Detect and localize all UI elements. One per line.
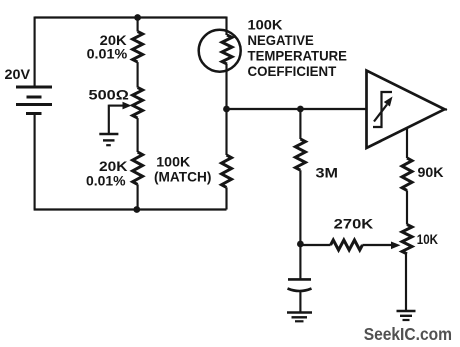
wire bottom rail xyxy=(34,208,227,210)
potentiometer P1 500 ohm xyxy=(133,88,143,119)
wire R3 to bottom rail xyxy=(225,187,227,209)
svg-text:90K: 90K xyxy=(418,164,444,180)
svg-text:COEFFICIENT: COEFFICIENT xyxy=(248,63,337,79)
wire node to R5 xyxy=(300,244,330,246)
wire R5 to arrow xyxy=(362,244,392,246)
svg-text:10K: 10K xyxy=(417,231,438,247)
node junction bottom xyxy=(133,206,140,213)
resistor R2 20K 0.01% xyxy=(133,152,143,184)
svg-text:0.01%: 0.01% xyxy=(87,46,128,62)
svg-text:100K: 100K xyxy=(156,154,190,170)
resistor R5 270K xyxy=(331,240,363,250)
svg-text:SeekIC.com: SeekIC.com xyxy=(364,324,452,344)
node junction mid left xyxy=(223,106,230,113)
wire R1 to P1 xyxy=(137,62,139,87)
svg-text:270K: 270K xyxy=(334,215,374,231)
svg-text:20V: 20V xyxy=(5,66,31,82)
wire wiper to ground xyxy=(108,105,110,134)
wire mid rail xyxy=(227,108,367,110)
svg-text:500Ω: 500Ω xyxy=(89,86,129,102)
wire op-amp to R6 xyxy=(406,128,408,159)
resistor R1 20K 0.01% xyxy=(133,32,143,63)
wire node to R3 xyxy=(225,109,227,155)
op-amp output nub xyxy=(445,108,448,110)
node junction mid 3M xyxy=(297,106,304,113)
thermistor RT1 circle xyxy=(199,30,241,72)
wire left rail lower xyxy=(34,114,36,210)
wire R6 to P2 xyxy=(406,190,408,224)
capacitor C1 xyxy=(288,244,312,313)
resistor R3 100K MATCH xyxy=(222,155,232,187)
op-amp internal adjust symbol xyxy=(373,92,393,127)
battery B1 20V xyxy=(16,87,52,114)
op-amp U1 xyxy=(367,71,445,149)
ground cap xyxy=(287,313,312,322)
svg-text:3M: 3M xyxy=(316,165,339,181)
potentiometer P2 10K xyxy=(402,225,412,254)
ground wiper xyxy=(99,134,118,145)
wire left rail upper xyxy=(34,17,36,88)
wire to R1 xyxy=(137,18,139,32)
wire P2 to ground xyxy=(405,254,407,311)
wire top rail corner down xyxy=(225,17,227,36)
svg-text:(MATCH): (MATCH) xyxy=(154,169,211,185)
svg-text:0.01%: 0.01% xyxy=(86,172,126,188)
wire thermistor to node xyxy=(225,64,227,109)
wire R4 to node xyxy=(299,170,301,244)
svg-text:NEGATIVE: NEGATIVE xyxy=(248,32,314,48)
wire top rail xyxy=(35,16,227,18)
wire node to R4 xyxy=(299,109,301,139)
thermistor RT1 zigzag xyxy=(222,35,232,64)
node junction top xyxy=(134,14,141,21)
wiper arrow to P2 xyxy=(391,242,401,250)
resistor R4 3M xyxy=(295,139,305,170)
wiper arrow P1 xyxy=(109,102,132,110)
ground P2 xyxy=(397,311,416,320)
wire R2 to bottom rail xyxy=(137,184,139,209)
wire P1 to R2 xyxy=(137,118,139,152)
resistor R6 90K xyxy=(402,158,412,190)
svg-text:100K: 100K xyxy=(248,16,283,32)
node junction cap xyxy=(297,241,304,248)
svg-text:TEMPERATURE: TEMPERATURE xyxy=(248,47,348,63)
